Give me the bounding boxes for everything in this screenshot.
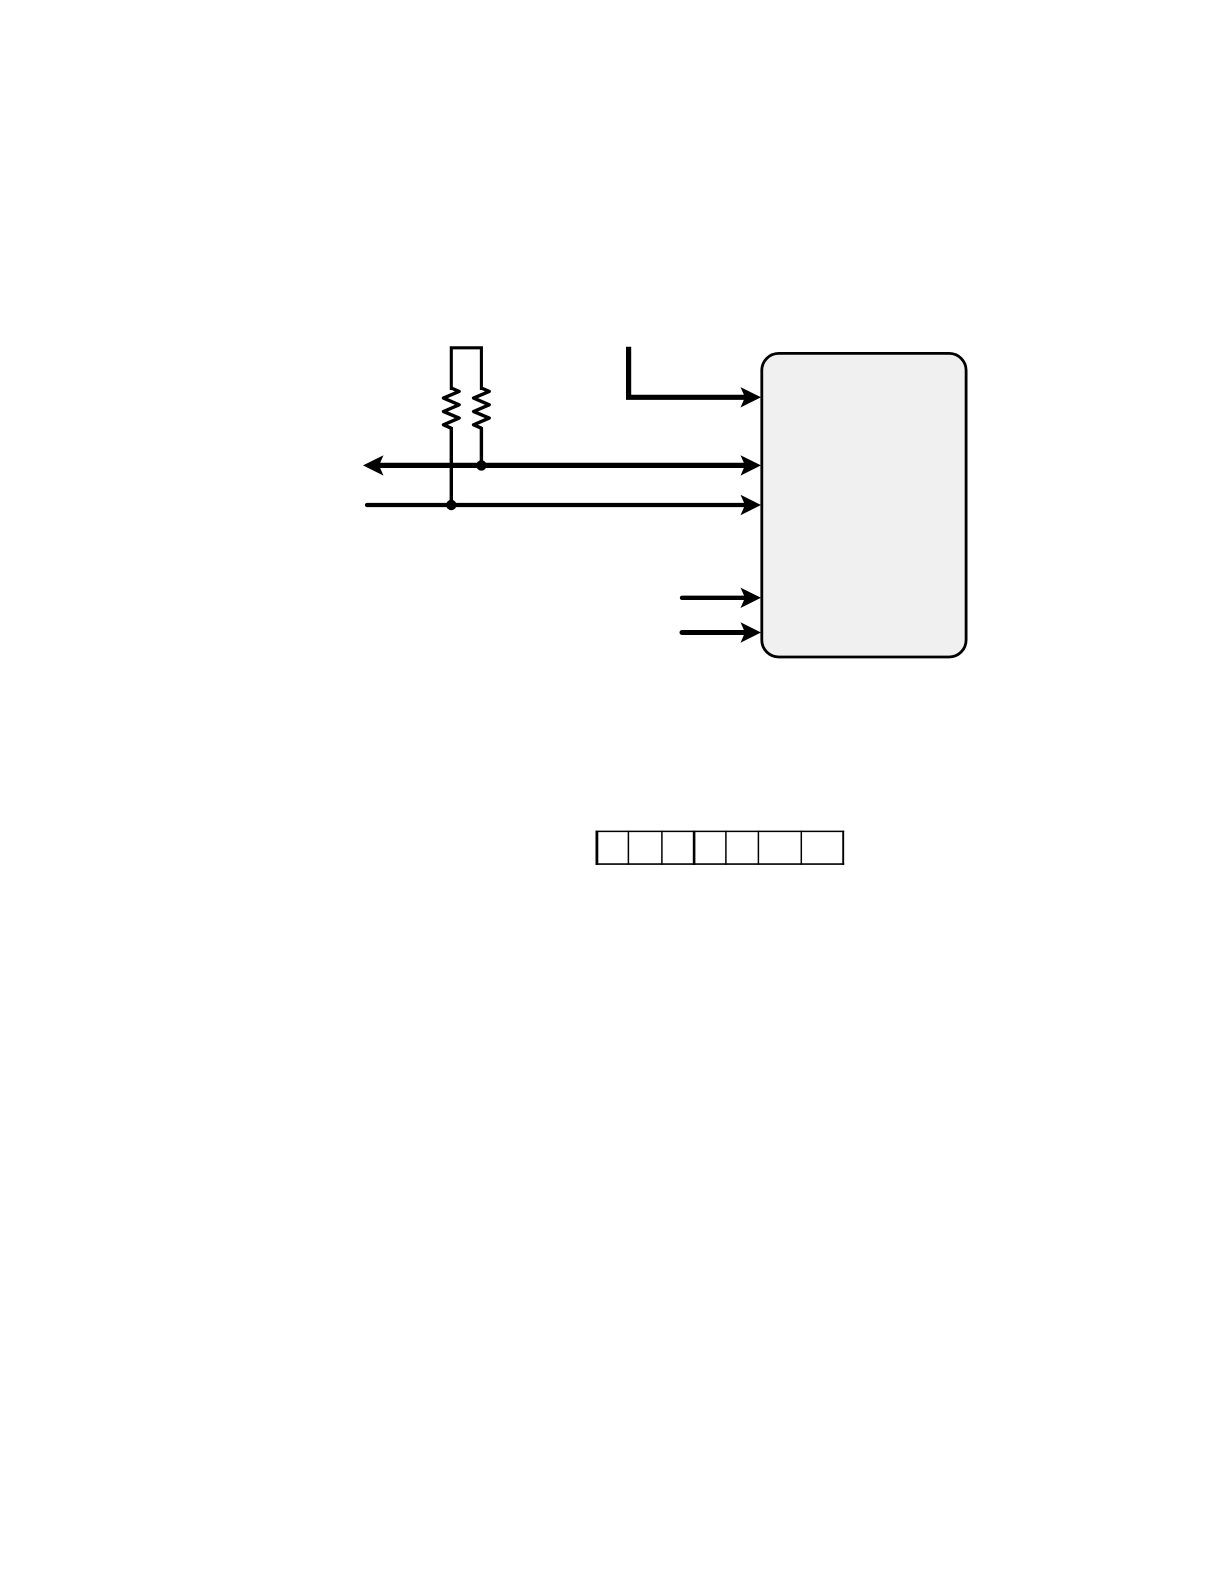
wire W5 into U1 bbox=[682, 630, 746, 635]
arrowhead W4 right into U1 bbox=[741, 588, 762, 608]
node A junction dot on W2 bbox=[476, 460, 486, 470]
register bit-field cell divider 3 (bold) bbox=[693, 831, 696, 865]
wire R1 bottom lead to node B bbox=[450, 427, 453, 505]
register bit-field table frame bbox=[596, 831, 845, 865]
node B junction dot on W3 bbox=[446, 500, 456, 510]
register bit-field cell divider 6 bbox=[800, 831, 802, 865]
arrowhead W2 left bbox=[363, 455, 384, 475]
arrowhead W1 into U1 bbox=[741, 387, 762, 407]
wire W2 bidirectional bus bbox=[379, 463, 746, 468]
register bit-field cell divider 2 bbox=[661, 831, 663, 865]
wire W1 horizontal with corner into U1 bbox=[629, 347, 746, 398]
register bit-field cell divider 4 bbox=[725, 831, 727, 865]
register bit-field cell divider 1 bbox=[627, 831, 629, 865]
arrowhead W3 right into U1 bbox=[741, 495, 762, 515]
wire W4 into U1 bbox=[682, 596, 746, 600]
module block U1 bbox=[762, 353, 966, 657]
wire W3 into U1 bbox=[367, 503, 746, 507]
resistor R1 top bus wire bbox=[451, 348, 481, 390]
register bit-field cell divider 5 bbox=[757, 831, 759, 865]
arrowhead W2 right into U1 bbox=[741, 455, 762, 475]
wire R2 bottom lead to node A bbox=[480, 427, 483, 465]
resistor R2 bbox=[474, 388, 490, 428]
resistor R1 bbox=[444, 388, 460, 428]
arrowhead W5 right into U1 bbox=[741, 622, 762, 642]
